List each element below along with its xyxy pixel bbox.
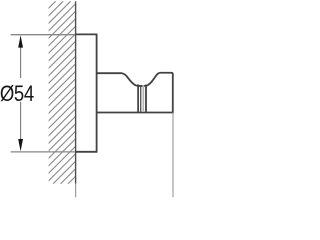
front face: [172, 74, 174, 113]
arrowhead up: [18, 35, 23, 47]
extension line bottom: [11, 151, 75, 153]
hook body outline: [97, 73, 174, 113]
neck groove line left: [137, 84, 139, 112]
dimension Ø54: [0, 35, 75, 152]
top edge with saddle: [97, 73, 173, 86]
wall hatching: [0, 1, 258, 184]
centre/projection line below hook front: [172, 113, 174, 198]
wall section: [0, 1, 258, 197]
dimension line shaft upper: [20, 47, 22, 78]
bottom edge: [97, 112, 174, 114]
flange front face: [96, 34, 98, 153]
dimension line shaft lower: [20, 102, 22, 140]
flange bottom edge: [75, 151, 97, 153]
neck groove line middle: [140, 85, 142, 112]
neck groove line right: [145, 85, 147, 112]
hook: flange top edge: [75, 33, 97, 35]
neck groove shading: [142, 85, 144, 112]
extension line top: [11, 34, 75, 36]
wall surface line: [75, 1, 77, 183]
svg-text:Ø54: Ø54: [0, 81, 34, 106]
arrowhead down: [18, 139, 23, 151]
wall surface line lower part: [75, 184, 77, 198]
